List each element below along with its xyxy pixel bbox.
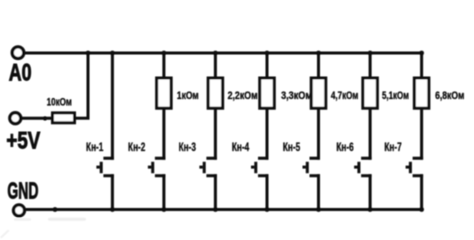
- svg-text:Кн-7: Кн-7: [384, 142, 401, 154]
- svg-text:Кн-2: Кн-2: [128, 142, 145, 154]
- svg-text:2,2кОм: 2,2кОм: [228, 90, 258, 102]
- svg-text:5,1кОм: 5,1кОм: [382, 90, 409, 102]
- svg-text:1кОм: 1кОм: [177, 90, 199, 102]
- svg-text:+5V: +5V: [6, 128, 40, 155]
- svg-text:A0: A0: [9, 60, 32, 87]
- svg-text:4,7кОм: 4,7кОм: [331, 90, 358, 102]
- svg-text:10кОм: 10кОм: [47, 97, 72, 109]
- svg-text:Кн-3: Кн-3: [179, 142, 196, 154]
- svg-text:Кн-5: Кн-5: [283, 142, 301, 154]
- svg-text:3,3кОм: 3,3кОм: [281, 90, 312, 102]
- svg-text:GND: GND: [7, 178, 38, 204]
- svg-text:Кн-4: Кн-4: [232, 142, 250, 154]
- svg-text:Кн-1: Кн-1: [86, 142, 104, 154]
- svg-text:6,8кОм: 6,8кОм: [435, 90, 464, 102]
- svg-text:Кн-6: Кн-6: [336, 142, 353, 154]
